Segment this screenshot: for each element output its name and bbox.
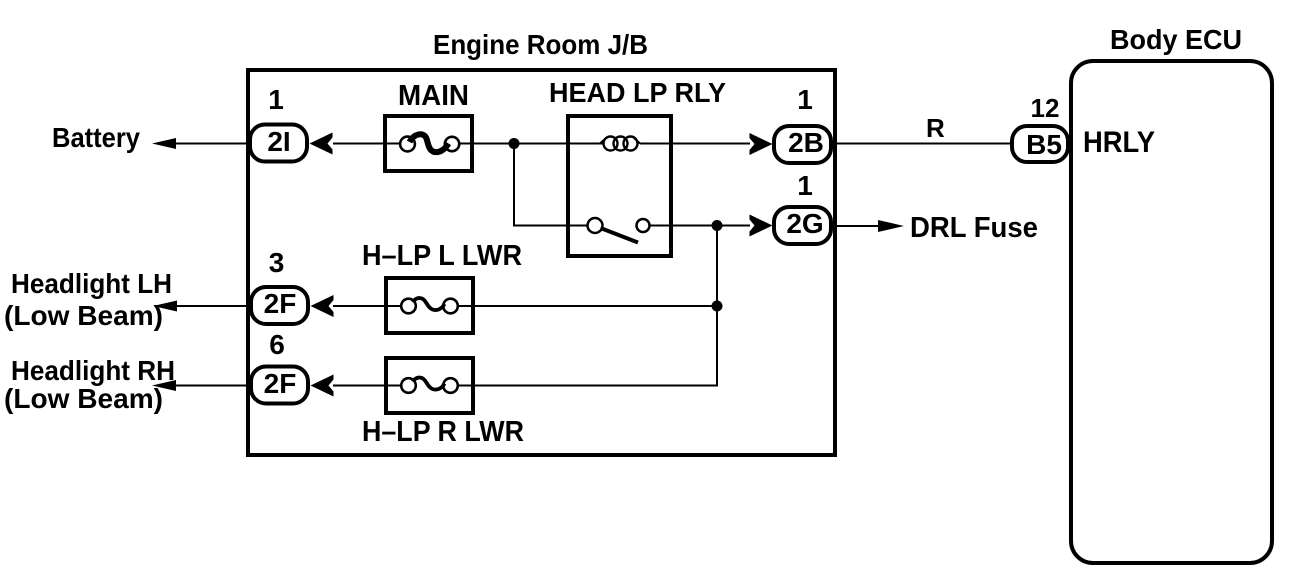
arrow to headlight LH bbox=[153, 301, 177, 312]
arrow to DRL fuse bbox=[878, 220, 904, 232]
wire 2G junction down to headlight feeds bbox=[475, 226, 717, 386]
wire 2B to B5, net R bbox=[837, 143, 1014, 145]
svg-text:H–LP R LWR: H–LP R LWR bbox=[362, 416, 524, 448]
svg-text:MAIN: MAIN bbox=[398, 80, 469, 112]
wire headlight LH bbox=[170, 305, 250, 307]
node junction headlight LH bbox=[712, 301, 723, 312]
svg-text:HEAD LP RLY: HEAD LP RLY bbox=[549, 77, 726, 108]
arrow to battery bbox=[152, 138, 176, 149]
arrowhead into 2G bbox=[750, 215, 773, 237]
svg-text:2F: 2F bbox=[264, 288, 297, 319]
arrowhead into 2B bbox=[750, 133, 773, 155]
svg-text:2B: 2B bbox=[788, 127, 824, 158]
svg-text:(Low Beam): (Low Beam) bbox=[4, 383, 163, 414]
wire 2F upper to junction bbox=[333, 305, 405, 307]
svg-text:1: 1 bbox=[797, 170, 813, 201]
svg-text:Headlight RH: Headlight RH bbox=[11, 355, 175, 386]
connector 2B bbox=[774, 126, 831, 163]
junction block box Engine Room J/B bbox=[248, 70, 835, 455]
wire coil to connector 2B bbox=[640, 143, 750, 145]
relay HEAD LP RLY bbox=[566, 116, 671, 256]
connector B5 bbox=[1012, 126, 1068, 162]
svg-text:1: 1 bbox=[797, 84, 813, 115]
fuse H-LP R LWR bbox=[386, 358, 473, 413]
ECU box Body ECU bbox=[1071, 61, 1272, 563]
svg-text:R: R bbox=[926, 113, 945, 143]
arrow to headlight RH bbox=[152, 380, 176, 391]
wire battery to connector 2I bbox=[170, 143, 250, 145]
arrowhead into 2F upper bbox=[311, 295, 334, 317]
connector 2G bbox=[774, 207, 831, 244]
arrowhead into 2F lower bbox=[311, 375, 334, 397]
fuse H-LP L LWR bbox=[386, 278, 473, 333]
connector 2F lower bbox=[251, 367, 308, 404]
fuse MAIN bbox=[385, 116, 472, 171]
wire 2G to DRL fuse bbox=[837, 225, 884, 227]
node junction on top wire bbox=[509, 138, 520, 149]
svg-text:6: 6 bbox=[269, 329, 285, 360]
svg-text:Battery: Battery bbox=[52, 122, 140, 153]
svg-text:HRLY: HRLY bbox=[1083, 126, 1155, 159]
connector 2F upper bbox=[251, 287, 308, 324]
svg-text:(Low Beam): (Low Beam) bbox=[4, 300, 163, 331]
svg-text:DRL Fuse: DRL Fuse bbox=[910, 212, 1038, 244]
svg-text:H–LP L LWR: H–LP L LWR bbox=[362, 240, 522, 272]
svg-text:Body ECU: Body ECU bbox=[1110, 24, 1242, 55]
svg-text:12: 12 bbox=[1031, 93, 1060, 123]
svg-text:1: 1 bbox=[268, 84, 284, 115]
svg-text:2G: 2G bbox=[786, 208, 823, 239]
wire junction down to relay switch bbox=[514, 144, 566, 226]
svg-text:2I: 2I bbox=[267, 126, 290, 157]
svg-text:Headlight LH: Headlight LH bbox=[11, 268, 172, 299]
wire relay switch to connector 2G bbox=[671, 225, 750, 227]
connector 2I bbox=[250, 125, 307, 162]
wire 2F lower to corner bbox=[333, 385, 405, 387]
node junction on 2G wire bbox=[712, 220, 723, 231]
svg-text:B5: B5 bbox=[1026, 129, 1062, 160]
wire headlight RH bbox=[170, 385, 250, 387]
wire 2I to MAIN fuse bbox=[333, 143, 404, 145]
svg-text:2F: 2F bbox=[264, 368, 297, 399]
svg-text:3: 3 bbox=[269, 247, 285, 278]
svg-text:Engine Room J/B: Engine Room J/B bbox=[433, 29, 648, 60]
arrowhead into 2I bbox=[310, 133, 333, 155]
